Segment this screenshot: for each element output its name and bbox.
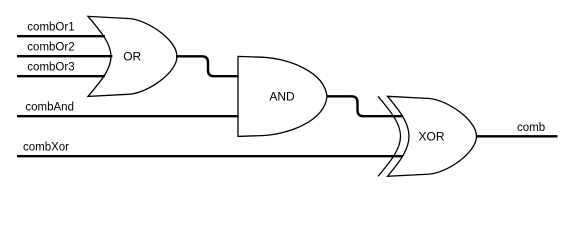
xor-gate U3 input arc [378,96,401,176]
svg-text:combOr2: combOr2 [27,41,74,53]
wire net combOr1 [17,35,105,37]
wire net comb (output) [477,135,558,137]
svg-text:comb: comb [517,122,545,134]
wire net combXor [17,155,403,157]
wire U1 output to U2 input [176,56,239,76]
svg-text:OR: OR [123,49,141,63]
xor-gate U3 body [388,96,477,176]
and-gate U2 body [238,56,327,136]
svg-text:combOr1: combOr1 [27,21,74,33]
wire net combOr2 [17,55,112,57]
svg-text:XOR: XOR [418,129,444,143]
wire net combOr3 [17,75,105,77]
svg-text:AND: AND [269,89,295,103]
or-gate U1 body [88,16,177,96]
svg-text:combXor: combXor [23,141,69,153]
svg-text:combAnd: combAnd [25,101,74,113]
wire net combAnd [17,115,239,117]
wire U2 output to U3 input [327,96,404,116]
svg-text:combOr3: combOr3 [27,61,74,73]
